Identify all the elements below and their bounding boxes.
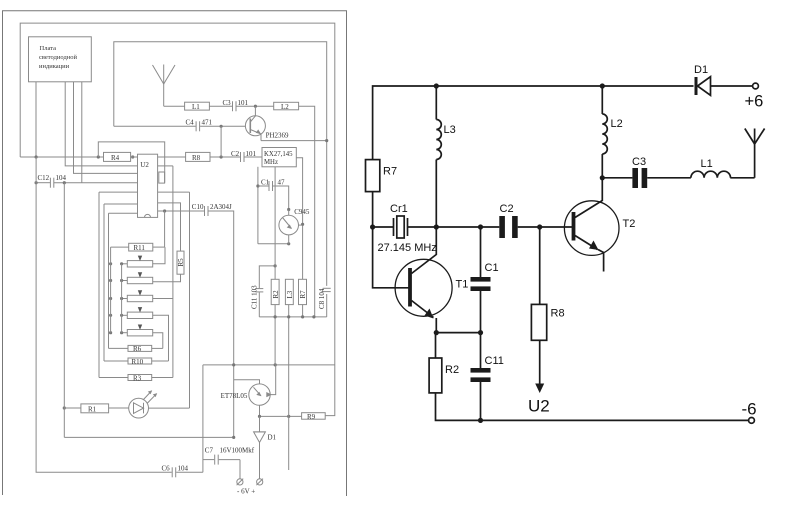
svg-text:Плата: Плата bbox=[40, 45, 57, 52]
junction: R4 right bbox=[131, 155, 134, 158]
svg-text:D1: D1 bbox=[694, 64, 708, 76]
svg-text:U2: U2 bbox=[528, 397, 550, 416]
svg-text:R10: R10 bbox=[132, 358, 144, 366]
wire: C2 to T2 base bbox=[518, 226, 572, 228]
svg-text:2A304J: 2A304J bbox=[210, 203, 232, 211]
svg-text:C10: C10 bbox=[192, 203, 204, 211]
svg-text:L1: L1 bbox=[192, 103, 200, 111]
svg-text:C1: C1 bbox=[261, 178, 270, 186]
svg-text:KX27,145: KX27,145 bbox=[264, 151, 293, 158]
wire: emitter node row bbox=[436, 332, 480, 334]
terminal -6 bbox=[749, 418, 755, 424]
svg-text:T2: T2 bbox=[623, 218, 636, 230]
svg-text:C2: C2 bbox=[500, 203, 514, 215]
junction bbox=[478, 330, 483, 335]
wire: KX box to R7 line bbox=[296, 158, 302, 279]
wire: long vertical right of U2 bbox=[172, 166, 174, 378]
transistor PH2369 bbox=[245, 106, 265, 140]
wire: R4 bypass loop bbox=[98, 142, 164, 183]
terminal plus bbox=[257, 479, 263, 485]
wire bbox=[164, 105, 185, 107]
wire: crystal to C2 bbox=[408, 226, 500, 228]
svg-text:R8: R8 bbox=[551, 308, 565, 320]
svg-text:PH2369: PH2369 bbox=[266, 132, 289, 140]
svg-text:U2: U2 bbox=[140, 161, 149, 169]
IC U2 bbox=[138, 154, 158, 217]
wire: emitter row bbox=[261, 140, 327, 142]
wires: board box leads bbox=[35, 82, 37, 157]
svg-text:-6: -6 bbox=[742, 400, 757, 419]
wire: crystal node down to T1 base bbox=[373, 227, 409, 288]
wire: left frame column bbox=[63, 183, 65, 438]
junction bbox=[434, 330, 439, 335]
junction: Cr1 left bbox=[370, 224, 375, 229]
svg-text:L2: L2 bbox=[281, 103, 289, 111]
junction: L3 top bbox=[434, 83, 439, 88]
wire: U2 right stub row bbox=[158, 165, 173, 167]
capacitor C12 with wire bbox=[36, 182, 50, 184]
svg-text:C2: C2 bbox=[231, 150, 240, 158]
svg-text:R7: R7 bbox=[299, 290, 307, 299]
bus row with R4 R8 C2 bbox=[20, 156, 103, 158]
junction bbox=[35, 181, 38, 184]
wire: ladder frame verticals bbox=[98, 192, 100, 377]
capacitor C1 47 branch bbox=[257, 167, 259, 244]
RF section boundary wire bbox=[114, 42, 327, 286]
resistor R5 bbox=[177, 251, 184, 274]
resistor R9 bbox=[302, 413, 326, 420]
small stub box on U2 right bbox=[159, 172, 165, 183]
LED bbox=[129, 390, 157, 418]
terminal minus bbox=[237, 479, 243, 485]
potentiometer ladder row 4 bbox=[109, 307, 169, 361]
box: Плата светодиодной индикации bbox=[29, 37, 92, 82]
svg-text:R9: R9 bbox=[307, 413, 316, 421]
resistor R7 vertical bbox=[299, 279, 307, 304]
svg-text:C7: C7 bbox=[205, 447, 214, 455]
transistor T1 bbox=[395, 255, 452, 319]
svg-text:101: 101 bbox=[238, 99, 249, 107]
svg-text:индикации: индикации bbox=[39, 63, 70, 70]
svg-text:104: 104 bbox=[56, 174, 67, 182]
svg-text:R3: R3 bbox=[133, 374, 142, 382]
resistor R11 bbox=[129, 243, 153, 251]
junction: L2 top bbox=[600, 83, 605, 88]
svg-text:R6: R6 bbox=[133, 345, 142, 353]
resistor R2 vertical bbox=[274, 167, 276, 279]
regulator ET78L05 bbox=[234, 365, 276, 417]
potentiometer ladder row 2 bbox=[109, 272, 153, 283]
svg-text:C3: C3 bbox=[632, 156, 646, 168]
svg-text:101: 101 bbox=[246, 150, 257, 158]
inductor L3 bbox=[436, 86, 441, 227]
svg-text:C11: C11 bbox=[485, 355, 504, 367]
wire: bank bottom row bbox=[259, 316, 326, 318]
inductor L3 vertical bbox=[285, 279, 293, 304]
wire to minus terminal bbox=[239, 460, 241, 479]
capacitor C3 bbox=[232, 101, 234, 111]
svg-text:MHz: MHz bbox=[264, 159, 278, 166]
svg-text:R4: R4 bbox=[111, 154, 120, 162]
resistor R2 bbox=[429, 333, 749, 421]
terminal +6 bbox=[753, 83, 759, 89]
svg-text:Cr1: Cr1 bbox=[390, 203, 408, 215]
capacitor C8 on right line bbox=[323, 287, 331, 289]
wire: ladder left columns bbox=[110, 247, 112, 333]
svg-text:+6: +6 bbox=[745, 93, 764, 111]
capacitor C11 bbox=[471, 333, 491, 421]
svg-text:R7: R7 bbox=[383, 166, 397, 178]
svg-text:R2: R2 bbox=[272, 290, 280, 299]
svg-text:27.145 MHz: 27.145 MHz bbox=[378, 242, 437, 254]
wire: row under KX bbox=[258, 243, 289, 245]
wires: rows to U2 left bbox=[99, 191, 190, 193]
junction: C11 bottom bbox=[478, 418, 483, 423]
wire: LED column bbox=[189, 192, 191, 408]
wire: L2 down the right side bbox=[299, 106, 315, 317]
resistor R6 bbox=[128, 345, 152, 351]
capacitor C4 row bbox=[114, 125, 196, 127]
svg-text:R5: R5 bbox=[177, 258, 185, 267]
svg-text:C945: C945 bbox=[294, 208, 310, 216]
transistor T2 bbox=[564, 201, 619, 272]
diode D1 bbox=[696, 77, 711, 96]
resistor R10 bbox=[128, 358, 152, 364]
resistor R4 bbox=[104, 152, 131, 161]
svg-text:D1: D1 bbox=[268, 434, 277, 442]
RIGHT-SCHEMATIC bbox=[366, 64, 765, 423]
wire: C3 to L1 bbox=[647, 177, 691, 179]
svg-text:L3: L3 bbox=[286, 290, 294, 298]
wire: U2 right to R5 top bbox=[158, 203, 181, 251]
svg-text:C12: C12 bbox=[38, 174, 50, 182]
resistor R1 row with LED bbox=[63, 406, 66, 409]
capacitor C2 bbox=[499, 216, 517, 238]
potentiometer ladder row 3 bbox=[109, 290, 173, 301]
wire: inner-left frame bottom bbox=[36, 157, 172, 472]
svg-text:ET78L05: ET78L05 bbox=[221, 392, 248, 400]
scan bottom edge band bbox=[0, 494, 346, 498]
resistor R8 bbox=[531, 227, 546, 393]
svg-text:C8 104: C8 104 bbox=[318, 288, 326, 309]
svg-text:- 6V +: - 6V + bbox=[237, 488, 255, 496]
wire: bus row segment bbox=[210, 156, 240, 158]
svg-text:C1: C1 bbox=[485, 262, 499, 274]
antenna bbox=[745, 129, 765, 178]
wire: T1 emitter down bbox=[435, 318, 437, 333]
inductor L2 box bbox=[274, 102, 299, 110]
wire bbox=[373, 226, 394, 228]
svg-text:16V100Mkf: 16V100Mkf bbox=[220, 447, 255, 455]
wire: R7 to crystal node bbox=[372, 192, 374, 227]
svg-text:471: 471 bbox=[202, 119, 213, 127]
wire: T1 collector up bbox=[435, 227, 437, 255]
svg-text:R1: R1 bbox=[88, 405, 97, 413]
svg-text:C6: C6 bbox=[162, 465, 171, 473]
capacitor C10 row bbox=[158, 210, 204, 212]
capacitor C6 bbox=[171, 467, 173, 477]
diode D1 left bbox=[254, 416, 266, 478]
wire bbox=[220, 126, 222, 157]
wire: node to C3 bbox=[602, 177, 632, 179]
wire: T2 collector up bbox=[601, 178, 603, 201]
svg-text:светодиодной: светодиодной bbox=[39, 54, 78, 61]
inner frame wire loop into R9 bbox=[20, 23, 335, 416]
junction: L3 bottom node bbox=[434, 224, 439, 229]
capacitor C3 bbox=[632, 168, 647, 188]
junction bbox=[220, 155, 223, 158]
capacitor C2 bbox=[240, 152, 242, 162]
junction: T2 base node bbox=[537, 224, 542, 229]
resistor R7 bbox=[366, 160, 380, 192]
inductor L2 bbox=[602, 86, 607, 178]
inductor L1 box bbox=[185, 102, 210, 110]
potentiometer ladder row 1 bbox=[109, 247, 165, 267]
potentiometer ladder row 5 bbox=[109, 325, 163, 349]
svg-text:C4: C4 bbox=[186, 119, 195, 127]
wire: voltage regulator frame bbox=[202, 365, 204, 472]
svg-text:C11 103: C11 103 bbox=[251, 285, 259, 309]
capacitor C11 branch (bank) bbox=[259, 266, 275, 288]
outer border frame bbox=[3, 11, 347, 496]
svg-text:R11: R11 bbox=[134, 244, 146, 252]
crystal KX27,145 MHz box bbox=[262, 148, 296, 167]
svg-text:L3: L3 bbox=[444, 124, 456, 136]
wire: C8 line lower part bbox=[326, 294, 328, 317]
svg-text:T1: T1 bbox=[456, 279, 469, 291]
transistor C945 bbox=[279, 208, 303, 244]
svg-text:C3: C3 bbox=[223, 99, 232, 107]
svg-text:L2: L2 bbox=[611, 118, 623, 130]
resistor R3 bbox=[128, 375, 152, 381]
wire: U2 right to R11 bbox=[164, 211, 166, 247]
crystal Cr1 bbox=[394, 216, 408, 238]
wire: +6 top rail bbox=[373, 86, 694, 160]
junction: C3/L2 node bbox=[600, 175, 605, 180]
junction: C1 top node bbox=[478, 224, 483, 229]
svg-text:R2: R2 bbox=[445, 364, 459, 376]
wire: bus row segment bbox=[131, 156, 186, 158]
inductor L1 bbox=[691, 171, 731, 178]
resistor R8 bbox=[186, 152, 210, 161]
capacitor C7 row bbox=[203, 459, 214, 461]
wire: L1 to antenna bbox=[730, 177, 754, 179]
svg-text:L1: L1 bbox=[701, 158, 713, 170]
svg-text:104: 104 bbox=[178, 465, 189, 473]
wire: regulator output row to R9 bbox=[260, 415, 302, 417]
svg-text:R8: R8 bbox=[192, 154, 201, 162]
antenna left bbox=[153, 65, 176, 107]
capacitor C1 bbox=[471, 227, 491, 333]
svg-text:47: 47 bbox=[278, 178, 286, 186]
